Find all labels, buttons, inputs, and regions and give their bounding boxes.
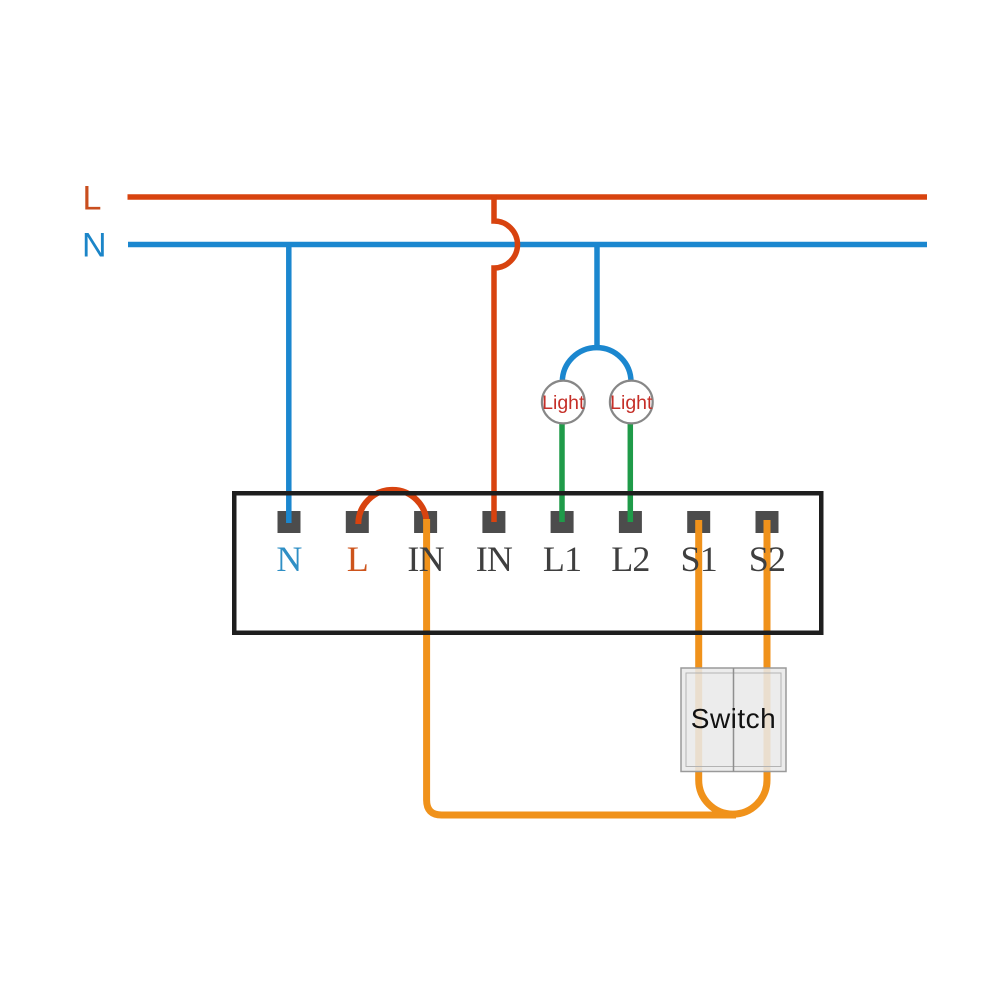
svg-text:S1: S1: [680, 539, 716, 579]
svg-text:L: L: [83, 180, 102, 218]
svg-text:Switch: Switch: [691, 703, 776, 734]
svg-text:IN: IN: [407, 539, 444, 579]
svg-text:IN: IN: [476, 539, 513, 579]
svg-text:L: L: [347, 539, 368, 579]
svg-text:N: N: [276, 539, 302, 579]
svg-text:N: N: [82, 227, 107, 265]
svg-text:Light: Light: [610, 392, 653, 414]
svg-text:Light: Light: [542, 392, 585, 414]
svg-text:L2: L2: [611, 539, 649, 579]
svg-text:L1: L1: [543, 539, 581, 579]
svg-text:S2: S2: [749, 539, 785, 579]
